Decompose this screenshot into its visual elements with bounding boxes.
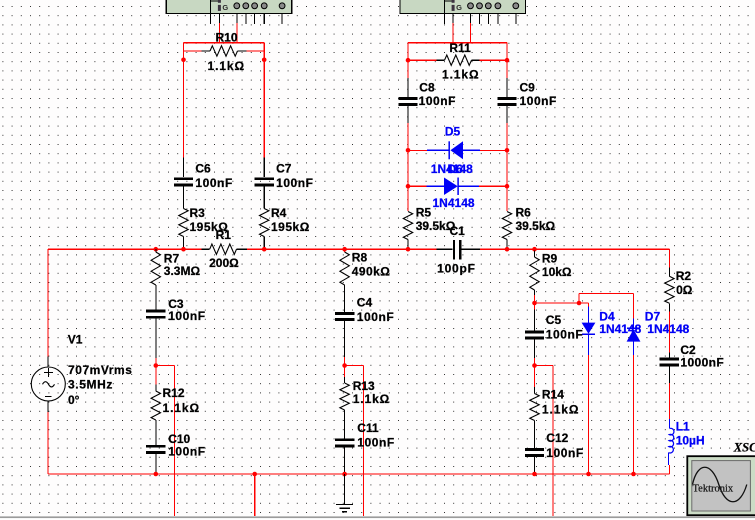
capacitor C5 — [525, 310, 544, 359]
instrument XFG1 pins — [211, 14, 283, 24]
capacitor C10 — [146, 445, 165, 474]
wire bus to V1 — [47, 249, 49, 356]
wire R10 right rail — [263, 43, 265, 158]
svg-text:R9: R9 — [542, 251, 558, 265]
capacitor C1 — [437, 240, 481, 259]
junction bus R8 — [342, 247, 347, 252]
source V1 — [31, 357, 65, 413]
junction D5 right — [505, 148, 510, 153]
wire XFG2 pin to R11 net (left) — [452, 23, 454, 43]
capacitor C4 — [335, 312, 354, 357]
junction C3-R12 — [154, 363, 159, 368]
instrument XFG2 pin pads — [452, 0, 455, 11]
svg-text:L1: L1 — [676, 420, 690, 434]
resistor R13 — [340, 377, 349, 438]
svg-text:1.1kΩ: 1.1kΩ — [163, 401, 200, 415]
diode D7 — [627, 319, 641, 356]
resistor R3 — [179, 209, 188, 250]
wire R11 left stub — [408, 59, 437, 61]
wire D7 bottom (red) — [633, 355, 635, 474]
diode D4 — [582, 307, 596, 356]
wire D5 row left — [408, 149, 427, 151]
wire D6 row to R6 — [506, 186, 508, 211]
wire jog to D4 — [535, 302, 589, 304]
wire R10 right stub — [246, 50, 264, 52]
capacitor C6 — [174, 158, 193, 209]
svg-text:XSC1: XSC1 — [733, 441, 755, 455]
wire D4 top stub (red) — [588, 303, 590, 307]
diode D6 — [426, 178, 479, 196]
resistor R10 — [202, 46, 247, 56]
svg-text:R10: R10 — [216, 30, 238, 44]
svg-text:V1: V1 — [68, 333, 83, 347]
svg-text:1.1kΩ: 1.1kΩ — [353, 392, 390, 406]
svg-text:100nF: 100nF — [168, 444, 205, 458]
instrument XFG1 body — [166, 0, 292, 14]
svg-text:G: G — [222, 3, 228, 12]
wire branch horizontal to D7 — [579, 293, 634, 295]
wire R11 right rail upper — [506, 43, 508, 78]
wire bus corner to R2 — [668, 249, 670, 267]
svg-text:R1: R1 — [216, 228, 232, 242]
diode D5 — [427, 141, 480, 159]
svg-text:R6: R6 — [516, 206, 532, 220]
svg-text:100nF: 100nF — [357, 310, 394, 324]
wire XFG2 pin to R11 net (right) — [469, 23, 471, 43]
svg-text:R13: R13 — [353, 379, 375, 393]
capacitor C9 — [497, 78, 516, 123]
svg-text:R5: R5 — [416, 206, 432, 220]
wire branch up — [578, 294, 580, 303]
svg-text:C4: C4 — [357, 296, 373, 310]
svg-text:R4: R4 — [271, 206, 287, 220]
wire D6 row right — [479, 185, 507, 187]
capacitor C2 — [660, 353, 679, 384]
wire R10 left stub — [184, 50, 203, 52]
wire stage3 branch vertical — [552, 366, 554, 517]
wire R10 left rail — [183, 43, 185, 158]
junction R11 left — [406, 58, 411, 63]
svg-text:1000nF: 1000nF — [680, 356, 724, 370]
wire C3 to R12 (red) — [155, 358, 157, 385]
svg-text:3.5MHz: 3.5MHz — [68, 378, 113, 392]
svg-text:C12: C12 — [546, 431, 568, 445]
wire C2 to L1 (red) — [668, 383, 670, 419]
svg-text:R14: R14 — [542, 388, 564, 402]
svg-text:R3: R3 — [190, 206, 206, 220]
junction bottom C10 — [154, 472, 159, 477]
capacitor C3 — [146, 310, 165, 358]
junction bottom stray — [252, 472, 257, 477]
junction bus R7 — [154, 247, 159, 252]
svg-text:200Ω: 200Ω — [209, 256, 239, 270]
instrument XFG1 terminal circles — [234, 3, 285, 9]
capacitor C7 — [255, 158, 274, 209]
resistor R1 — [201, 244, 247, 254]
svg-text:C11: C11 — [357, 421, 379, 435]
svg-text:Tektronix: Tektronix — [693, 484, 734, 495]
resistor R12 — [151, 385, 160, 445]
svg-text:R8: R8 — [352, 251, 368, 265]
svg-text:1N4148: 1N4148 — [433, 196, 475, 210]
junction R10 left — [181, 58, 186, 63]
wire stage2 branch horizontal — [345, 365, 364, 367]
resistor R4 — [260, 209, 269, 250]
junction bottom C11 — [342, 472, 347, 477]
svg-text:D5: D5 — [445, 125, 461, 139]
svg-text:100nF: 100nF — [276, 176, 313, 190]
wire C9 to D5 row — [506, 123, 508, 150]
wire rail D5-D6 left — [407, 150, 409, 186]
svg-text:1.1kΩ: 1.1kΩ — [442, 68, 479, 82]
svg-text:100nF: 100nF — [168, 309, 205, 323]
wire bottom bus — [48, 473, 669, 475]
inductor L1 — [669, 419, 674, 465]
capacitor C8 — [398, 78, 417, 123]
svg-text:3.3MΩ: 3.3MΩ — [164, 264, 201, 278]
junction D5 left — [406, 148, 411, 153]
svg-text:R12: R12 — [163, 386, 185, 400]
wire R11 top horizontal — [408, 42, 507, 44]
svg-text:D6: D6 — [448, 162, 464, 176]
junction jog branch — [577, 301, 582, 306]
svg-text:1.1kΩ: 1.1kΩ — [208, 59, 245, 73]
wire D6 row left — [408, 185, 426, 187]
svg-text:707mVrms: 707mVrms — [68, 363, 132, 377]
svg-text:C5: C5 — [546, 313, 562, 327]
instrument XFG2 body — [400, 0, 526, 14]
svg-text:R11: R11 — [449, 41, 471, 55]
wire D6 row to R5 — [407, 186, 409, 211]
wire D7 top (red) — [633, 294, 635, 319]
resistor R6 — [502, 212, 511, 250]
svg-text:10µH: 10µH — [676, 434, 705, 448]
resistor R11 — [437, 55, 480, 65]
svg-text:1N4148: 1N4148 — [647, 322, 689, 336]
junction D6 right — [505, 184, 510, 189]
wire R11 left rail upper — [407, 43, 409, 78]
wire C5 to R14 (red) — [534, 358, 536, 387]
svg-text:C1: C1 — [450, 224, 466, 238]
oscilloscope XSC1 icon — [687, 456, 755, 515]
instrument XFG2 terminal circles — [468, 3, 519, 9]
svg-text:100pF: 100pF — [437, 262, 476, 276]
svg-text:490kΩ: 490kΩ — [352, 265, 391, 279]
capacitor C12 — [525, 448, 544, 474]
svg-text:0Ω: 0Ω — [676, 283, 693, 297]
junction bus R9 — [532, 247, 537, 252]
instrument XFG1 internal divider — [211, 0, 220, 14]
wire R11 right stub — [480, 59, 508, 61]
svg-text:100nF: 100nF — [419, 94, 456, 108]
wire bus to R8 — [344, 249, 346, 252]
wire V1 to bottom bus — [47, 412, 49, 474]
svg-text:100nF: 100nF — [520, 94, 557, 108]
svg-text:100nF: 100nF — [546, 446, 583, 460]
wire bus to R9 — [534, 249, 536, 250]
junction bus R5 — [406, 247, 411, 252]
wire C4 to R13 (red) — [344, 357, 346, 377]
wire stage1 branch horizontal — [156, 365, 175, 367]
svg-text:10kΩ: 10kΩ — [542, 265, 572, 279]
resistor R5 — [403, 212, 412, 250]
resistor R7 — [151, 249, 160, 310]
wire R9-C5 junction vertical (red) — [534, 295, 536, 310]
junction bottom D4 — [586, 472, 591, 477]
ground symbol — [336, 474, 353, 512]
window bottom edge — [0, 516, 755, 518]
svg-text:195kΩ: 195kΩ — [271, 220, 310, 234]
wire R2 to C2 (red) — [668, 312, 670, 353]
capacitor C11 — [335, 438, 354, 474]
svg-text:C8: C8 — [419, 80, 435, 94]
junction bus R6 — [505, 247, 510, 252]
svg-text:100nF: 100nF — [546, 328, 583, 342]
wire C8 to D5 row — [407, 123, 409, 150]
resistor R9 — [530, 251, 539, 296]
svg-text:1.1kΩ: 1.1kΩ — [542, 403, 579, 417]
wire stray vertical — [254, 474, 256, 516]
svg-text:C9: C9 — [520, 80, 536, 94]
svg-text:0°: 0° — [68, 393, 80, 407]
junction R9 jog — [532, 301, 537, 306]
svg-text:G: G — [456, 3, 462, 12]
wire stage1 branch vertical — [173, 366, 175, 517]
junction bottom D7 — [631, 472, 636, 477]
wire D4 bottom (red) — [588, 355, 590, 474]
wire main bus middle segment — [247, 248, 437, 250]
wire L1 to bottom bus (red) — [668, 465, 670, 474]
junction bus R3 — [181, 247, 186, 252]
wire R10 top horizontal — [184, 42, 265, 44]
junction R11 right — [505, 58, 510, 63]
resistor R14 — [530, 387, 539, 448]
junction C5-R14 — [532, 363, 537, 368]
wire stage2 branch vertical — [363, 366, 365, 517]
wire D5 row right — [480, 149, 507, 151]
instrument XFG1 pin pads — [218, 0, 221, 11]
wire stage3 branch horizontal — [535, 365, 554, 367]
wire XFG1 pin to R10 net (right) — [236, 23, 238, 43]
wire XFG1 pin to R10 net (left) — [218, 23, 220, 43]
svg-text:C6: C6 — [195, 161, 211, 175]
resistor R2 — [665, 268, 674, 312]
junction C4-R13 — [342, 363, 347, 368]
resistor R8 — [340, 252, 349, 312]
wire rail D5-D6 right — [506, 150, 508, 186]
svg-text:C7: C7 — [276, 161, 292, 175]
svg-text:39.5kΩ: 39.5kΩ — [516, 219, 556, 233]
junction R10 right — [262, 58, 267, 63]
wire main bus right segment — [480, 248, 669, 250]
instrument XFG2 internal divider — [444, 0, 453, 14]
junction bottom C12 — [532, 472, 537, 477]
svg-text:R2: R2 — [676, 269, 692, 283]
junction bus R4 — [262, 247, 267, 252]
junction D6 left — [406, 184, 411, 189]
wire main bus left segment — [48, 248, 202, 250]
instrument XFG2 pins — [444, 14, 516, 24]
svg-text:100nF: 100nF — [357, 435, 394, 449]
svg-text:100nF: 100nF — [195, 176, 232, 190]
